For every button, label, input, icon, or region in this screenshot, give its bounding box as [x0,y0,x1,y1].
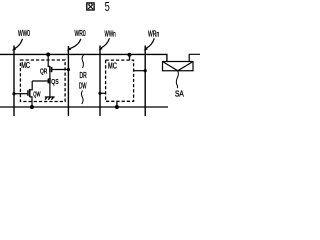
svg-text:SA: SA [175,89,184,98]
svg-text:QW: QW [33,91,40,98]
svg-text:WWn: WWn [105,29,116,38]
svg-text:5: 5 [105,0,110,14]
svg-text:DR: DR [80,71,87,80]
svg-text:DW: DW [79,82,87,91]
svg-text:QR: QR [40,68,47,75]
svg-text:MC: MC [108,61,117,70]
svg-text:WRn: WRn [148,30,159,39]
svg-text:QS: QS [51,79,59,86]
svg-text:MC: MC [21,61,30,70]
svg-text:WR0: WR0 [75,29,87,38]
svg-text:WW0: WW0 [18,29,30,38]
